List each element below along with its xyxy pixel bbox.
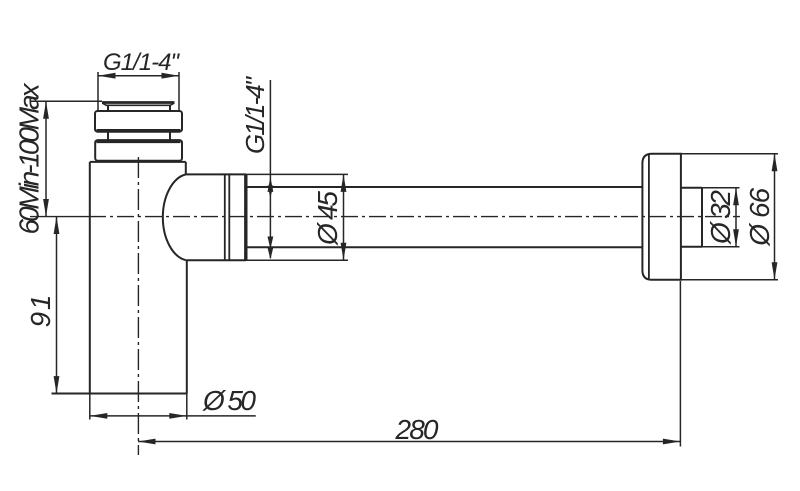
arrow O32 up: [733, 188, 739, 206]
arrow 91 down: [54, 376, 60, 394]
arrow O66 down: [772, 262, 778, 280]
cap disc: [102, 101, 175, 104]
dim O50 extensions: [90, 394, 187, 420]
dim O66 extensions: [681, 154, 778, 280]
arrow O50 left: [90, 413, 108, 419]
wall flange: [642, 154, 681, 280]
cap neck2: [108, 132, 170, 140]
arrow G top right: [162, 73, 180, 79]
arrow leader up: [268, 177, 274, 192]
arrow O66 up: [772, 154, 778, 172]
dim O32 extensions: [702, 188, 740, 247]
arrow leader down3: [268, 248, 274, 260]
arrow 280 left: [138, 439, 156, 445]
label G1/1-4 leader: [269, 80, 271, 258]
dim 60Min-100Max line: [45, 101, 47, 216]
arrow leader down1: [268, 186, 274, 199]
dim O45 line: [343, 174, 345, 260]
wire vertical centerline: [137, 157, 139, 455]
dim G1/1-4 top extension lines: [98, 72, 179, 111]
stub pipe: [681, 188, 702, 247]
arrow O45 up: [341, 174, 347, 192]
svg-text:280: 280: [395, 414, 439, 445]
nut N1: [225, 174, 230, 260]
svg-text:Ø 50: Ø 50: [202, 385, 256, 416]
dim O32 line: [735, 188, 737, 247]
arrow 60-100 down: [43, 199, 49, 217]
arrow O45 down: [341, 243, 347, 261]
svg-text:G1/1-4": G1/1-4": [240, 75, 270, 154]
arrow leader down2: [268, 237, 274, 250]
cap band1: [95, 111, 182, 132]
dim 60Min-100Max extension top: [30, 100, 102, 102]
dim 280 line: [138, 441, 680, 443]
cap band2: [95, 140, 182, 161]
arrow 280 right: [663, 439, 681, 445]
arrow 60-100 up: [43, 101, 49, 119]
wire horizontal centerline: [30, 216, 89, 218]
dim O50 line: [90, 415, 256, 417]
svg-text:G1/1-4": G1/1-4": [103, 49, 180, 76]
arrow O50 right: [169, 413, 187, 419]
svg-text:91: 91: [25, 295, 56, 328]
dim 280 right extension: [679, 281, 681, 447]
dim O45 extensions: [246, 174, 348, 260]
svg-text:Ø 45: Ø 45: [312, 191, 343, 246]
cap neck1: [108, 105, 170, 111]
arrow 91 up: [54, 217, 60, 235]
arrow G top left: [98, 73, 116, 79]
svg-text:60Min-100Max: 60Min-100Max: [14, 83, 45, 235]
arrow O32 down: [733, 229, 739, 247]
body: [52, 162, 187, 394]
arrowheads: [43, 73, 777, 445]
dim G1/1-4 top line: [98, 75, 179, 77]
tube outlet: [247, 187, 642, 247]
dim O66 line: [774, 154, 776, 280]
dome elbow: [185, 162, 187, 175]
svg-text:Ø 32: Ø 32: [705, 190, 736, 245]
dim 91 line: [56, 217, 58, 394]
svg-text:Ø 66: Ø 66: [744, 187, 775, 246]
